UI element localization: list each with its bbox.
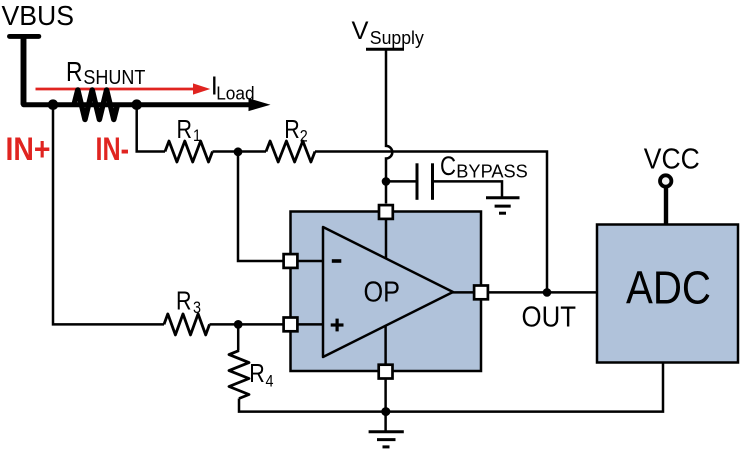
- wire top pin to triangle: [385, 219, 388, 259]
- current arrow ILoad: [36, 88, 197, 91]
- svg-text:Supply: Supply: [370, 28, 424, 48]
- pin top: [379, 205, 393, 219]
- op-amp triangle: [323, 227, 453, 357]
- wire R4 to ground rail: [239, 361, 663, 412]
- wire R1 to R2: [213, 150, 267, 153]
- wire bottom pin to triangle: [384, 325, 387, 364]
- junction IN- tap: [131, 99, 142, 110]
- svg-text:OUT: OUT: [522, 301, 577, 333]
- resistor R2: [266, 141, 315, 162]
- svg-text:2: 2: [300, 126, 308, 145]
- junction node R3-R4: [234, 320, 243, 329]
- wire triangle apex to output pin: [451, 291, 474, 294]
- minus sign inverting input: [332, 259, 342, 263]
- ADC block: [597, 225, 738, 363]
- wire R3 to non-inverting pin: [210, 323, 283, 326]
- wire VCC stub to ADC: [664, 188, 668, 224]
- wire non-inverting pin to triangle: [297, 323, 323, 326]
- capacitor CBYPASS plates: [416, 163, 419, 200]
- wire IN- drop to R1: [137, 107, 165, 152]
- wire op-amp ground stub: [384, 380, 387, 432]
- svg-text:IN-: IN-: [96, 131, 130, 167]
- wire inverting pin to triangle: [297, 260, 323, 263]
- svg-text:VCC: VCC: [644, 143, 700, 175]
- svg-text:R: R: [176, 286, 192, 316]
- wire capacitor to ground: [434, 181, 502, 197]
- svg-text:R: R: [66, 56, 83, 87]
- resistor RSHUNT: [74, 90, 118, 120]
- svg-text:R: R: [177, 114, 193, 144]
- svg-text:R: R: [284, 114, 300, 144]
- svg-text:VBUS: VBUS: [2, 0, 75, 31]
- resistor R4: [229, 351, 249, 399]
- wire thick load bus: [24, 102, 251, 105]
- svg-text:V: V: [352, 17, 369, 45]
- wire VBUS vertical drop: [21, 36, 27, 104]
- ground bypass: [486, 198, 520, 213]
- op-amp U1 box: [291, 212, 482, 372]
- wire output OUT: [489, 291, 597, 294]
- VBUS terminal bar: [10, 34, 39, 39]
- ground main: [369, 432, 404, 447]
- svg-text:3: 3: [193, 298, 201, 317]
- pin non-inverting input: [284, 318, 298, 332]
- resistor R1: [165, 141, 213, 162]
- svg-text:4: 4: [266, 372, 274, 391]
- junction IN+ tap: [48, 99, 59, 110]
- wire junction down to R4: [237, 324, 240, 350]
- wire junction to inverting pin: [238, 152, 283, 261]
- junction ground rail: [381, 407, 390, 416]
- svg-text:Load: Load: [216, 83, 254, 103]
- junction output feedback: [543, 288, 552, 297]
- wire VSupply down with hop over feedback: [386, 49, 392, 203]
- VCC terminal circle: [660, 175, 671, 186]
- svg-text:OP: OP: [364, 276, 401, 308]
- svg-text:1: 1: [193, 126, 201, 145]
- svg-text:R: R: [249, 358, 265, 388]
- resistor R3: [164, 314, 210, 335]
- junction node R1-R2: [234, 147, 243, 156]
- VSupply terminal bar: [366, 48, 404, 51]
- svg-text:IN+: IN+: [6, 131, 51, 167]
- wire tap to capacitor: [386, 180, 416, 183]
- plus sign non-inverting input: [331, 323, 344, 326]
- wire IN+ down and right to R3: [53, 107, 164, 324]
- load bus arrowhead: [249, 98, 271, 111]
- junction bypass tap: [382, 177, 391, 186]
- wire R2 feedback to output node: [315, 152, 547, 293]
- pin bottom: [379, 365, 393, 379]
- svg-text:BYPASS: BYPASS: [456, 160, 528, 181]
- pin output: [474, 286, 488, 300]
- svg-text:SHUNT: SHUNT: [83, 66, 145, 89]
- svg-text:ADC: ADC: [626, 261, 711, 313]
- svg-text:C: C: [440, 151, 456, 181]
- pin inverting input: [284, 254, 298, 268]
